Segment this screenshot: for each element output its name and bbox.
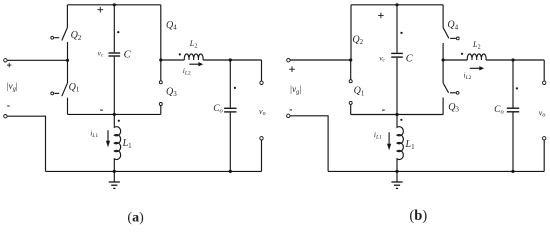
node ground junction (b) xyxy=(395,170,398,173)
ground (b) xyxy=(391,171,402,188)
wire input - to bottom rail (a) xyxy=(7,116,45,171)
node Co top junction (b) xyxy=(511,58,514,61)
capacitor C (b) xyxy=(391,53,403,57)
wire Co lower (b) xyxy=(512,113,514,172)
wire bottom rail (a) xyxy=(46,170,262,172)
ground (a) xyxy=(109,171,120,188)
svg-text:vc: vc xyxy=(98,48,104,58)
label - input (a) xyxy=(7,105,9,107)
inductor L1 (b) xyxy=(397,115,403,172)
terminal vo - (a) xyxy=(260,137,263,140)
transistor Q1 (open switch) (a) xyxy=(51,83,68,96)
wire bottom rail (b) xyxy=(328,170,544,172)
wire left leg upper (a) xyxy=(66,5,68,28)
wire right leg upper (b) xyxy=(442,5,444,28)
transistor Q1 (open switch, two circles) (b) xyxy=(349,60,352,115)
terminal input + (b) xyxy=(287,59,290,62)
svg-text:Q3: Q3 xyxy=(166,86,177,98)
svg-text:L1: L1 xyxy=(122,138,133,150)
wire top rail (a) xyxy=(67,4,160,6)
svg-text:Q1: Q1 xyxy=(354,86,365,98)
node C polarity dot (a) xyxy=(117,31,119,33)
wire mid horizontal (a) xyxy=(68,113,161,115)
svg-text:|vg|: |vg| xyxy=(290,84,302,96)
inductor L2 (b) xyxy=(467,54,486,60)
svg-text:L2: L2 xyxy=(472,39,481,51)
wire L2 right (a) xyxy=(203,59,261,61)
svg-text:vo: vo xyxy=(259,107,266,117)
node L2 winding dot (b) xyxy=(461,53,463,55)
wire input + (a) xyxy=(7,59,67,61)
svg-text:Q3: Q3 xyxy=(448,102,459,114)
node mid / C-branch junction (a) xyxy=(113,113,116,116)
terminal input - (a) xyxy=(4,115,7,118)
arrow iL2 (a) xyxy=(189,62,203,66)
node L2/Q3/Q4 junction (b) xyxy=(442,58,445,61)
svg-text:Q1: Q1 xyxy=(69,82,80,94)
svg-text:Q4: Q4 xyxy=(166,20,177,32)
node ground junction (a) xyxy=(113,170,116,173)
node L2 winding dot (a) xyxy=(179,53,181,55)
svg-text:iL1: iL1 xyxy=(90,128,98,139)
inductor L1 (a) xyxy=(114,114,120,171)
capacitor Co (a) xyxy=(224,108,236,112)
wire to vo+ terminal (a) xyxy=(261,60,263,81)
svg-text:L1: L1 xyxy=(405,139,416,151)
transistor Q4 (open switch) (b) xyxy=(443,28,459,40)
transistor Q2 (open switch) (a) xyxy=(51,28,68,41)
label - input (b) xyxy=(290,109,292,111)
node L2/Q3/Q4 junction (a) xyxy=(159,58,162,61)
terminal vo - (b) xyxy=(543,137,546,140)
wire top rail (b) xyxy=(351,4,443,6)
wire C branch upper (b) xyxy=(396,5,398,53)
wire Co upper (b) xyxy=(512,60,514,108)
node L1 winding dot (a) xyxy=(118,120,120,122)
wire Q1 upper (a) xyxy=(67,60,69,83)
wire Co upper (a) xyxy=(229,60,231,108)
wire Q4 lower (b) xyxy=(442,43,444,60)
node top-rail / C junction (a) xyxy=(113,3,116,6)
wire to vo+ terminal (b) xyxy=(543,60,545,81)
wire Q1 lower (a) xyxy=(67,98,69,115)
arrow iL1 (a) xyxy=(106,130,110,147)
transistor Q3 (open switch) (b) xyxy=(443,60,459,115)
svg-text:(b): (b) xyxy=(409,208,427,224)
terminal input - (b) xyxy=(287,114,290,117)
node Co polarity dot (a) xyxy=(234,87,236,89)
svg-text:iL2: iL2 xyxy=(183,66,191,77)
wire C branch lower (b) xyxy=(396,58,398,115)
svg-text:Co: Co xyxy=(213,104,223,115)
label - vc (b) xyxy=(382,109,385,111)
svg-text:L2: L2 xyxy=(189,38,198,50)
wire vo- to bottom rail (a) xyxy=(261,140,263,171)
terminal vo + (a) xyxy=(260,81,263,84)
node Co polarity dot (b) xyxy=(516,87,518,89)
wire vo- to bottom rail (b) xyxy=(543,140,545,171)
terminal input + (a) xyxy=(4,59,7,62)
capacitor Co (b) xyxy=(507,108,519,112)
arrow iL2 (b) xyxy=(470,66,484,70)
svg-text:vo: vo xyxy=(539,108,546,118)
svg-text:(a): (a) xyxy=(127,211,144,226)
arrow iL1 (b) xyxy=(387,132,391,150)
svg-text:C: C xyxy=(406,54,414,65)
node L1 winding dot (b) xyxy=(400,119,402,121)
node input junction (b) xyxy=(349,58,352,61)
wire input - to bottom rail (b) xyxy=(290,116,328,172)
svg-text:vc: vc xyxy=(379,53,385,63)
wire right leg Q4 closed (a) xyxy=(160,5,162,60)
inductor L2 (a) xyxy=(184,54,203,60)
node C polarity dot (b) xyxy=(400,32,402,34)
svg-text:|vg|: |vg| xyxy=(6,81,18,93)
wire C branch lower (a) xyxy=(113,57,115,115)
capacitor C (a) xyxy=(109,53,121,56)
node input junction (a) xyxy=(66,59,69,62)
label + vc (b) xyxy=(378,13,384,19)
wire Co lower (a) xyxy=(229,113,231,172)
svg-text:Q4: Q4 xyxy=(447,20,458,32)
svg-text:iL2: iL2 xyxy=(464,71,472,82)
wire left leg Q2 closed (b) xyxy=(350,5,352,60)
node mid / C-branch junction (b) xyxy=(395,113,398,116)
wire L2 right (b) xyxy=(486,59,544,61)
node Co bottom junction (a) xyxy=(229,170,232,173)
svg-text:iL1: iL1 xyxy=(374,130,382,141)
wire mid horizontal (b) xyxy=(351,114,444,116)
wire L2 left (b) xyxy=(443,59,467,61)
terminal vo + (b) xyxy=(543,81,546,84)
label + vc (a) xyxy=(98,7,104,13)
node Co top junction (a) xyxy=(229,58,232,61)
label + input (b) xyxy=(289,66,295,72)
svg-text:Q2: Q2 xyxy=(71,30,82,42)
node Co bottom junction (b) xyxy=(511,170,514,173)
wire Q2 to input node (a) xyxy=(67,42,69,60)
label - vc (a) xyxy=(100,109,103,111)
svg-text:C: C xyxy=(124,49,132,60)
svg-text:Q2: Q2 xyxy=(352,34,363,46)
label + input (a) xyxy=(7,63,11,67)
wire L2 left (a) xyxy=(161,59,185,61)
wire input + (b) xyxy=(290,59,351,61)
transistor Q3 (open switch, two circles) (a) xyxy=(159,60,162,114)
node top-rail / C junction (b) xyxy=(395,3,398,6)
wire C branch upper (a) xyxy=(113,5,115,53)
svg-text:Co: Co xyxy=(494,105,504,116)
